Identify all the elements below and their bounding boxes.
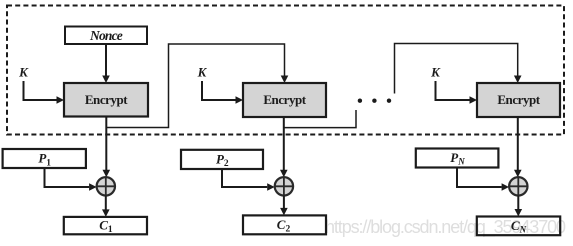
- encrypt block E3: [477, 83, 560, 117]
- svg-text:K: K: [430, 65, 441, 80]
- wire Nonce to Encrypt1 with arrow: [102, 44, 110, 83]
- plaintext box P2: [181, 150, 263, 169]
- ciphertext box C1: [64, 217, 147, 235]
- wire PN to XOR3 with arrow: [457, 168, 509, 191]
- XOR node X1: [97, 177, 115, 195]
- svg-text:https://blog.csdn.net/qq_35943: https://blog.csdn.net/qq_35943700: [325, 217, 566, 238]
- wire E2 output down to XOR2 with arrow: [280, 117, 288, 177]
- plaintext box P1: [3, 149, 86, 168]
- XOR node X3: [509, 177, 527, 195]
- chain wire E2 output branch toward ellipsis: [284, 110, 356, 128]
- ellipsis dots: [358, 99, 392, 103]
- dashed enclosure box: [7, 6, 564, 135]
- wire XOR3 to CN with arrow: [515, 196, 523, 217]
- Nonce box: [65, 27, 147, 45]
- wire K1 to Encrypt1 with arrow: [24, 81, 65, 104]
- chain wire into Encrypt3 input: [395, 44, 522, 94]
- svg-text:K: K: [18, 65, 29, 80]
- XOR node X2: [275, 177, 293, 195]
- chain wire E1 output feedback to Encrypt2 input: [106, 44, 288, 128]
- encrypt block E1: [64, 83, 148, 117]
- wire XOR2 to C2 with arrow: [280, 196, 288, 216]
- plaintext box PN: [416, 149, 499, 168]
- ciphertext box CN: [477, 217, 560, 236]
- wire P2 to XOR2 with arrow: [222, 169, 275, 191]
- svg-text:K: K: [197, 65, 208, 80]
- svg-text:Nonce: Nonce: [89, 28, 123, 43]
- wire E1 output down to XOR1 with arrow: [103, 117, 111, 178]
- ciphertext box C2: [243, 215, 326, 234]
- svg-text:Encrypt: Encrypt: [263, 92, 306, 107]
- wire K3 to Encrypt3 with arrow: [436, 81, 478, 104]
- svg-text:Encrypt: Encrypt: [85, 92, 128, 107]
- wire P1 to XOR1 with arrow: [45, 168, 97, 191]
- encrypt block E2: [243, 83, 326, 117]
- wire XOR1 to C1 with arrow: [102, 196, 110, 217]
- wire E3 output down to XOR3 with arrow: [514, 117, 522, 177]
- wire K2 to Encrypt2 with arrow: [202, 81, 243, 104]
- svg-text:Encrypt: Encrypt: [497, 92, 540, 107]
